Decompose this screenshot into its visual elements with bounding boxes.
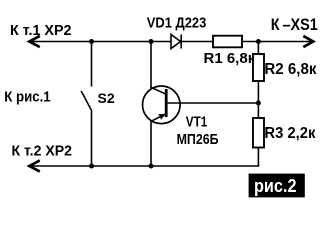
svg-text:VD1 Д223: VD1 Д223 bbox=[147, 15, 207, 32]
node: left arrow to К т.1 ХР2 bbox=[29, 36, 40, 47]
svg-text:VT1: VT1 bbox=[186, 115, 208, 131]
svg-text:МП26Б: МП26Б bbox=[177, 132, 219, 148]
node: junction dot top rail / S2 bbox=[89, 39, 94, 44]
node: junction dot R2/R3/base bbox=[256, 101, 261, 106]
label: рис.2 box bbox=[249, 174, 305, 198]
svg-text:К –XS1: К –XS1 bbox=[271, 15, 318, 34]
wire: R2 top lead bbox=[257, 42, 259, 55]
node: junction dot bottom rail / S2 bbox=[89, 164, 94, 169]
resistor R1 bbox=[213, 36, 242, 48]
svg-text:R2 6,8к: R2 6,8к bbox=[264, 61, 316, 78]
node: junction dot top rail / VT1 collector bbox=[149, 39, 154, 44]
wire: R3 bottom lead down to bottom rail bbox=[257, 148, 259, 167]
node: right arrow to К–XS1 bbox=[303, 36, 313, 47]
svg-text:рис.2: рис.2 bbox=[254, 176, 297, 196]
diode VD1 bbox=[171, 35, 181, 49]
svg-text:К т.1 ХР2: К т.1 ХР2 bbox=[10, 22, 72, 39]
svg-text:S2: S2 bbox=[98, 90, 115, 106]
wire: R2 bottom lead to base node bbox=[257, 81, 259, 118]
transistor VT1 bbox=[143, 42, 181, 167]
node: junction dot bottom rail / VT1 emitter bbox=[149, 164, 154, 169]
node: left arrow to К т.2 ХР2 bbox=[29, 160, 40, 171]
svg-text:R3 2,2к: R3 2,2к bbox=[264, 125, 315, 142]
node: junction dot top rail / R2 bbox=[256, 39, 261, 44]
resistor R3 bbox=[253, 118, 264, 148]
svg-text:К т.2 ХР2: К т.2 ХР2 bbox=[12, 142, 73, 159]
switch S2 bbox=[81, 42, 92, 167]
svg-text:К рис.1: К рис.1 bbox=[4, 89, 51, 106]
wire: bottom rail bbox=[30, 165, 260, 167]
node: emitter arrowhead (points into base bar, PNP) bbox=[158, 114, 166, 120]
svg-text:R1 6,8к: R1 6,8к bbox=[204, 50, 256, 67]
wire: top rail R1-to-right-arrow segment bbox=[242, 41, 313, 43]
wire: top rail left segment (arrow to diode) bbox=[30, 41, 172, 43]
wire: base wire VT1 to divider bbox=[166, 102, 258, 104]
resistor R2 bbox=[253, 54, 264, 81]
wire: top rail diode-to-R1 segment bbox=[181, 41, 213, 43]
